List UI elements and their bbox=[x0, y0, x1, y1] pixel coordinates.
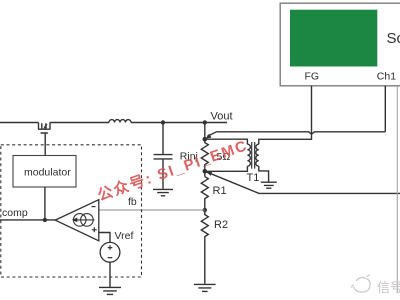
svg-text:Ch1: Ch1 bbox=[377, 71, 396, 83]
transistor Q1 (MOSFET switch) bbox=[38, 123, 51, 134]
svg-text:Vout: Vout bbox=[211, 111, 233, 123]
svg-text:modulator: modulator bbox=[24, 167, 71, 179]
resistor R1 bbox=[201, 177, 208, 210]
wire FG to transformer primary bbox=[259, 86, 312, 144]
wire Ch2 diagonal line bbox=[206, 172, 400, 194]
wire modulator to comp bbox=[44, 187, 46, 220]
minus input marker bbox=[92, 206, 96, 208]
node Rinj bottom / Ch2 probe bbox=[203, 169, 208, 174]
wire gate to modulator bbox=[44, 133, 46, 156]
resistor R2 bbox=[201, 210, 208, 284]
wire primary bottom to ground bbox=[259, 166, 269, 182]
watermark red diagonal bbox=[95, 134, 251, 205]
transformer T1 core bbox=[252, 142, 255, 169]
svg-text:Scope: Scope bbox=[387, 30, 400, 47]
wire secondary bottom to Rinj bottom bbox=[207, 166, 247, 171]
wire op-amp plus to Vref bbox=[99, 233, 110, 243]
node fb bbox=[203, 208, 207, 212]
op-amp U1 (error amplifier) bbox=[55, 200, 99, 241]
node Vout bbox=[203, 120, 207, 124]
svg-text:comp: comp bbox=[2, 207, 28, 219]
wire fb line bbox=[99, 209, 205, 211]
wire inductor to Vout bbox=[131, 122, 227, 124]
wire Rinj top to transformer secondary bbox=[205, 139, 248, 144]
arrowhead Ch1 probe bbox=[206, 134, 212, 139]
node comp bbox=[43, 218, 47, 222]
right edge frame line bbox=[396, 86, 398, 292]
modulator box bbox=[13, 156, 76, 188]
scope screen bbox=[290, 10, 377, 67]
svg-text:R1: R1 bbox=[213, 185, 227, 197]
ground (R2) bbox=[194, 284, 216, 291]
wire Vout to Rinj top bbox=[204, 123, 206, 140]
scope box bbox=[280, 3, 400, 86]
ground (Vref) bbox=[99, 287, 121, 294]
capacitor Cout bbox=[154, 123, 173, 189]
ground (output cap) bbox=[153, 189, 173, 195]
voltage source Vref bbox=[100, 242, 120, 262]
svg-text:fb: fb bbox=[128, 196, 137, 208]
arrowhead Ch2 probe bbox=[206, 172, 212, 176]
wire Rinj bottom bbox=[204, 169, 206, 177]
transformer T1 secondary coil bbox=[247, 144, 250, 166]
svg-text:FG: FG bbox=[305, 71, 320, 83]
svg-text:R2: R2 bbox=[214, 219, 228, 231]
transformer T1 primary coil bbox=[256, 144, 259, 166]
resistor Rinj bbox=[201, 139, 208, 169]
inductor L bbox=[109, 120, 131, 123]
plus input marker bbox=[92, 227, 97, 232]
watermark logo scribble bbox=[352, 275, 370, 292]
wire input rail bbox=[0, 122, 39, 124]
node Rinj top bbox=[203, 137, 208, 142]
ground (T1) bbox=[261, 182, 277, 188]
node output cap junction bbox=[161, 120, 165, 124]
svg-text:Vref: Vref bbox=[115, 230, 134, 242]
wire Vref to ground bbox=[109, 262, 111, 287]
svg-text:T1: T1 bbox=[247, 172, 260, 184]
dashed box (control IC) bbox=[1, 145, 142, 277]
watermark bottom right bbox=[377, 277, 400, 296]
wire comp bbox=[0, 219, 56, 221]
wire drain to inductor bbox=[50, 122, 109, 124]
wire Ch1 probe line with crossover dip bbox=[207, 86, 385, 137]
